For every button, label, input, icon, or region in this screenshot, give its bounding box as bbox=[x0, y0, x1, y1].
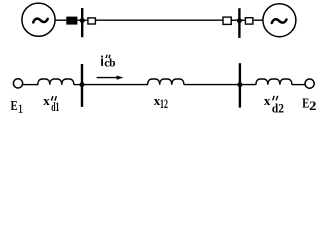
svg-text:12: 12 bbox=[160, 97, 168, 111]
breaker B3 (white box) bbox=[245, 18, 253, 24]
svg-text:d1: d1 bbox=[51, 99, 59, 114]
inductor x"d1 bbox=[38, 79, 74, 85]
bus 2 (top) bbox=[238, 8, 240, 38]
wire x12 to bus 2 bottom bbox=[184, 84, 241, 86]
junction dot bus 2 bottom bbox=[237, 82, 242, 87]
inductor x"d2 bbox=[256, 79, 292, 85]
wire B2 to bus 2 bbox=[231, 19, 245, 21]
label x"d1 bbox=[43, 93, 59, 114]
wire bus 2 to inductor x"d2 bbox=[240, 84, 256, 86]
current arrow i''cb bbox=[97, 76, 124, 80]
junction dot bus 1 top bbox=[80, 18, 85, 23]
label i''cb bbox=[101, 55, 115, 70]
label E2 bbox=[302, 97, 316, 113]
terminal E2 circle bbox=[305, 79, 314, 88]
transformer T1 (black box) bbox=[66, 17, 77, 25]
label x"d2 bbox=[264, 93, 284, 115]
junction dot bus 1 bottom bbox=[80, 82, 85, 87]
transmission line wire bbox=[96, 19, 224, 21]
generator G2 bbox=[263, 4, 296, 37]
svg-text:x: x bbox=[264, 93, 271, 108]
generator G1 bbox=[22, 3, 55, 36]
bus 2 (bottom) bbox=[239, 63, 241, 107]
wire T1 to bus 1 bbox=[77, 19, 87, 21]
bus 1 (bottom) bbox=[81, 64, 83, 107]
wire E1 to reactance x"d1 bbox=[23, 84, 39, 86]
wire G1 to transformer T1 bbox=[55, 19, 67, 21]
bus 1 (top) bbox=[81, 8, 83, 37]
svg-text:1: 1 bbox=[17, 102, 23, 116]
inductor x12 bbox=[148, 79, 184, 85]
svg-text:2: 2 bbox=[309, 99, 317, 113]
label E1 bbox=[11, 99, 24, 116]
junction dot bus 2 top bbox=[237, 18, 242, 23]
svg-text:b: b bbox=[109, 58, 115, 70]
wire x"d1 to bus 1 bottom bbox=[74, 84, 84, 86]
wire x"d2 to terminal E2 bbox=[292, 84, 305, 86]
breaker B2 (white box) bbox=[223, 17, 231, 24]
wire bus 1 to inductor x12 bbox=[82, 84, 148, 86]
wire B3 to G2 bbox=[254, 19, 263, 21]
terminal E1 circle bbox=[13, 79, 22, 88]
label x12 bbox=[154, 93, 168, 111]
breaker B1 (white box) bbox=[88, 18, 96, 24]
svg-text:x: x bbox=[43, 93, 50, 108]
svg-text:d2: d2 bbox=[272, 100, 284, 115]
